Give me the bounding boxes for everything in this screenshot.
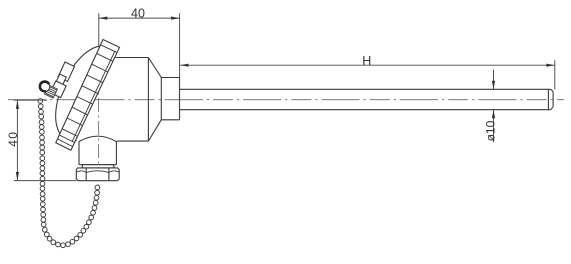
clamp block bbox=[50, 81, 66, 98]
screw cap (knurled, angled) bbox=[56, 40, 120, 151]
dimension H bbox=[180, 54, 555, 90]
head body bbox=[115, 58, 179, 142]
lug middle block bbox=[56, 74, 66, 84]
terminal head boss (elliptical outline) bbox=[56, 46, 100, 141]
horizontal centerline (probe axis) bbox=[8, 99, 564, 101]
head bottom neck bbox=[79, 136, 116, 165]
svg-text:40: 40 bbox=[6, 131, 20, 147]
dimension 40 (left, vertical) bbox=[6, 100, 77, 180]
washer bbox=[82, 165, 115, 168]
svg-text:H: H bbox=[362, 54, 371, 68]
hex nut bbox=[76, 168, 119, 181]
cap lug (box on cap edge) bbox=[50, 62, 74, 98]
eyelet screw head bbox=[40, 82, 50, 92]
dimension 40 (top) bbox=[99, 6, 180, 120]
probe tube bbox=[180, 78, 554, 120]
svg-text:40: 40 bbox=[131, 6, 145, 20]
vertical centerline (head axis) bbox=[98, 52, 100, 186]
ball chain bbox=[38, 99, 100, 248]
dimension diameter 10 bbox=[484, 70, 498, 142]
eyelet screw shank (hatched) bbox=[45, 85, 58, 98]
svg-text:ø10: ø10 bbox=[484, 120, 498, 141]
